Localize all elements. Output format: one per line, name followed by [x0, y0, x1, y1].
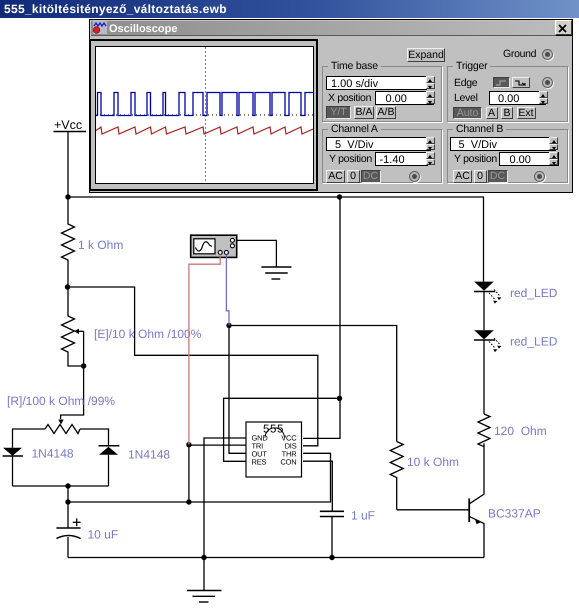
channel B trace (red sawtooth)	[96, 127, 313, 134]
ground symbol bottom	[187, 558, 222, 603]
svg-text:10 uF: 10 uF	[88, 528, 119, 542]
svg-text:[E]/10 k Ohm /100%: [E]/10 k Ohm /100%	[94, 327, 202, 341]
wire RES to VCC strap	[224, 398, 340, 461]
svg-text:CON: CON	[280, 457, 296, 466]
svg-text:RES: RES	[252, 457, 267, 466]
wire OUT net to 10k	[229, 326, 246, 454]
Ground label + radio	[503, 48, 536, 60]
resistor R1 1 k Ohm	[62, 197, 124, 287]
transistor Q1 BC337AP	[469, 443, 541, 557]
wire base	[397, 509, 469, 511]
diode D1 1N4148 (left, pointing down)	[3, 447, 74, 487]
red probe wire channel A	[189, 254, 220, 444]
potentiometer E 10k (label [E]/10 k Ohm /100%)	[62, 287, 202, 366]
main window title bar	[0, 0, 579, 18]
node junction at 68,197	[65, 194, 70, 199]
channel A trace (blue square wave)	[96, 93, 314, 116]
svg-text:1N4148: 1N4148	[128, 448, 170, 462]
Channel A group	[322, 129, 442, 183]
power +Vcc	[54, 118, 87, 132]
oscilloscope icon XSC1	[191, 235, 237, 257]
wire wiper to pot R	[61, 366, 84, 419]
capacitor C1 10 uF polarized	[56, 502, 118, 558]
ground symbol at scope icon	[261, 267, 291, 279]
555 timer U1	[246, 422, 302, 477]
wire TRI riser	[188, 445, 190, 502]
LED D3 red_LED top	[474, 282, 558, 331]
wire +Vcc down	[67, 132, 69, 198]
wire DIS net from node A	[68, 287, 318, 446]
wire LED2 to R4	[483, 340, 485, 414]
svg-text:+Vcc: +Vcc	[54, 118, 82, 132]
node junction at 188.9,502	[186, 499, 191, 504]
node junction at 229,325.5	[226, 323, 231, 328]
node junction at 332,557.5	[329, 555, 334, 560]
Channel B group	[447, 129, 568, 183]
svg-text:1 uF: 1 uF	[351, 509, 375, 523]
node junction at 68,502	[65, 499, 70, 504]
wire diode bottom rail	[13, 485, 109, 487]
node junction at 188.9,444.7	[186, 442, 191, 447]
wire TRI pin	[189, 444, 246, 446]
node junction at 83.6,366	[81, 363, 86, 368]
node A junction at 67.5,287	[65, 284, 70, 289]
node junction at 68,486	[65, 483, 70, 488]
wire top rail left	[68, 196, 340, 198]
wire VCC pin riser	[303, 197, 340, 438]
wire THR net to 555	[68, 453, 331, 502]
wire top rail right to LED chain	[340, 197, 484, 282]
wire CON to 1uF	[303, 461, 332, 511]
diode D2 1N4148 (right, pointing up)	[99, 446, 171, 486]
LED D4 red_LED bottom	[474, 330, 558, 352]
svg-text:[R]/100 k Ohm /99%: [R]/100 k Ohm /99%	[7, 394, 115, 408]
resistor R3 10 k Ohm	[390, 442, 459, 510]
blue probe wire channel B	[226, 254, 229, 325]
Expand button	[407, 48, 445, 62]
oscilloscope window	[89, 19, 573, 193]
svg-text:1 k Ohm: 1 k Ohm	[78, 238, 123, 252]
node junction at 204,557.5	[201, 555, 206, 560]
svg-text:BC337AP: BC337AP	[488, 507, 541, 521]
wire GND pin to ground rail	[204, 438, 246, 558]
wire OUT net horizontal	[229, 326, 397, 442]
svg-text:red_LED: red_LED	[510, 335, 558, 349]
wire down to THR node	[67, 486, 69, 502]
wire ground rail bottom	[68, 557, 484, 559]
graticule horizontal dotted centerline	[96, 114, 314, 116]
Time base group	[322, 66, 442, 122]
svg-text:1N4148: 1N4148	[32, 447, 74, 461]
Trigger group	[447, 66, 568, 122]
potentiometer R 100k (label [R]/100 k Ohm /99%)	[7, 394, 115, 448]
svg-text:red_LED: red_LED	[510, 286, 558, 300]
resistor R4 120 Ohm	[478, 414, 547, 447]
svg-text:120 Ohm: 120 Ohm	[494, 424, 547, 438]
svg-text:10 k Ohm: 10 k Ohm	[407, 455, 459, 469]
node junction at 339.5,398.3	[337, 396, 342, 401]
node junction at 339.5,197	[337, 194, 342, 199]
graticule vertical dotted centerline	[205, 48, 207, 184]
wire scope icon to ground	[237, 240, 277, 267]
capacitor C2 1 uF	[320, 509, 375, 558]
